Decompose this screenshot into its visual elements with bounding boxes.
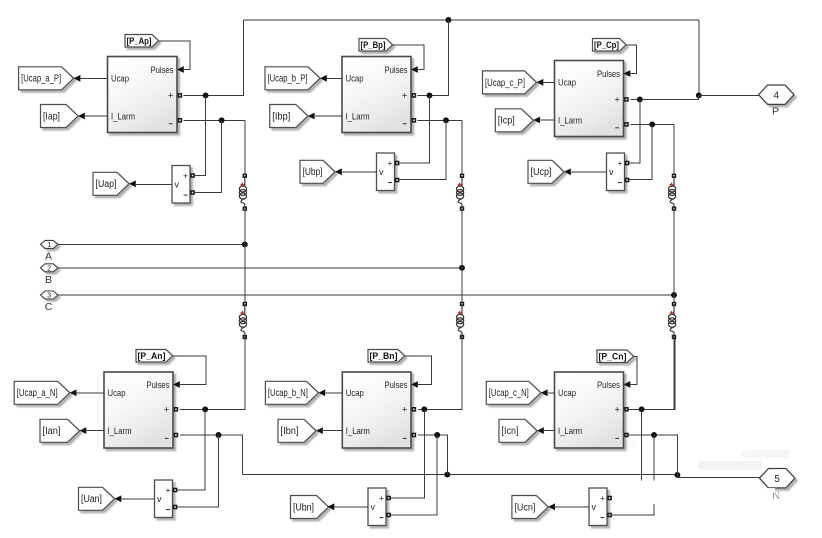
wire V_an out to [Uan] xyxy=(115,495,155,502)
inductor L_Cp xyxy=(669,174,677,211)
svg-text:Ucap: Ucap xyxy=(108,388,126,399)
svg-text:+: + xyxy=(402,405,408,416)
svg-text:2: 2 xyxy=(47,265,51,272)
wire + branch down to Vap xyxy=(195,95,205,175)
junction - branch to Vap xyxy=(219,117,225,123)
svg-text:A: A xyxy=(45,250,52,262)
junction on N rail (phase C drop) xyxy=(674,472,680,478)
wire V_cp out to [Ucp] xyxy=(564,168,607,175)
wire - branch down to Vcp xyxy=(630,124,653,179)
svg-text:[P_Bn]: [P_Bn] xyxy=(370,351,398,362)
junction - branch to Van xyxy=(216,432,222,438)
subsystem U_Bp xyxy=(342,57,418,133)
svg-text:P: P xyxy=(772,106,779,118)
svg-text:[Ibp]: [Ibp] xyxy=(272,111,290,122)
subsystem U_An xyxy=(104,372,180,448)
svg-text:+: + xyxy=(166,485,171,495)
wire N rail jog to port 5 xyxy=(677,475,759,478)
svg-text:v: v xyxy=(175,180,180,190)
svg-text:[Ucap_a_P]: [Ucap_a_P] xyxy=(21,74,61,85)
subsystem U_Bn xyxy=(342,372,418,448)
from tag [P_Ap] xyxy=(125,35,159,48)
svg-text:1: 1 xyxy=(47,242,51,249)
svg-text:[Ian]: [Ian] xyxy=(43,426,61,437)
svg-text:[Ubp]: [Ubp] xyxy=(303,167,323,178)
port 5 (N) xyxy=(760,469,795,502)
goto tag [Uan] xyxy=(79,487,115,510)
wire - output to arm chain xyxy=(630,123,674,125)
svg-text:[Ucp]: [Ucp] xyxy=(531,167,552,178)
port 2 (phase B) xyxy=(41,264,58,286)
svg-text:+: + xyxy=(183,171,188,181)
wire Ucap out to [Ucap_a_N] xyxy=(70,389,104,396)
wire - branch down to Vcn (faded) xyxy=(612,435,654,515)
svg-text:v: v xyxy=(371,502,376,512)
goto tag [Ucap_a_N] xyxy=(14,381,69,404)
wire phase B rail xyxy=(58,267,462,269)
voltmeter V_an xyxy=(155,480,178,518)
voltmeter V_cn xyxy=(589,488,612,526)
junction phase B rail / arm chain xyxy=(459,265,465,271)
inductor L_Bp xyxy=(457,174,465,211)
port 1 (phase A) xyxy=(41,240,58,262)
svg-text:[P_Ap]: [P_Ap] xyxy=(127,36,152,47)
svg-text:[Ucap_c_P]: [Ucap_c_P] xyxy=(485,78,525,89)
svg-text:[P_Cn]: [P_Cn] xyxy=(599,351,627,362)
svg-text:I_Larm: I_Larm xyxy=(346,426,370,437)
svg-text:+: + xyxy=(379,493,384,503)
wire to port 4 xyxy=(699,94,759,96)
goto tag [Ibp] xyxy=(270,105,308,128)
wire V_cn out to [Ucn] xyxy=(548,503,589,510)
wire [P_An] to Pulses xyxy=(173,356,207,385)
wire V_bp out to [Ubp] xyxy=(335,168,377,175)
svg-text:[Uap]: [Uap] xyxy=(96,179,117,190)
wire [P_Bp] to Pulses xyxy=(393,45,425,70)
subsystem U_Cp xyxy=(555,61,631,137)
wire Ucap out to [Ucap_b_N] xyxy=(318,389,342,396)
svg-text:B: B xyxy=(45,274,52,286)
wire + branch down to Van xyxy=(178,409,206,490)
svg-text:v: v xyxy=(609,167,614,177)
inductor L_An xyxy=(239,302,247,339)
wire + branch down to Vcp xyxy=(630,99,640,163)
wire phase C riser to P rail xyxy=(698,20,700,95)
svg-text:v: v xyxy=(379,167,384,177)
svg-text:+: + xyxy=(164,405,170,416)
svg-text:+: + xyxy=(614,405,620,416)
wire phase C rail xyxy=(58,294,674,296)
goto tag [Ibn] xyxy=(278,419,316,442)
svg-text:[Ucap_b_P]: [Ucap_b_P] xyxy=(268,74,308,85)
wire + output to port 4 jog xyxy=(630,95,698,99)
junction + branch to Vcn xyxy=(639,406,645,412)
svg-text:I_Larm: I_Larm xyxy=(558,426,582,437)
wire - branch down to Vap xyxy=(195,120,221,192)
svg-text:v: v xyxy=(592,502,597,512)
svg-text:[P_Bp]: [P_Bp] xyxy=(361,40,386,51)
wire V_ap out to [Uap] xyxy=(129,180,172,187)
wire I_Larm out to [Iap] xyxy=(78,113,108,120)
wire - output to N drop xyxy=(180,435,243,475)
junction + branch to Vap xyxy=(203,92,209,98)
wire [P_Cn] to Pulses xyxy=(631,356,637,384)
junction + branch to Vbp xyxy=(427,92,433,98)
wire arm chain phase A (upper) xyxy=(244,120,246,304)
voltmeter V_ap xyxy=(172,166,195,204)
wire I_Larm out to [Icn] xyxy=(537,427,555,434)
goto tag [Ubn] xyxy=(291,496,329,519)
junction on P rail (phase B riser) xyxy=(445,17,451,23)
goto tag [Ucn] xyxy=(512,496,548,519)
wire + output to arm chain xyxy=(626,336,675,409)
svg-text:[Icn]: [Icn] xyxy=(502,426,519,437)
svg-text:Pulses: Pulses xyxy=(597,69,620,80)
svg-text:+: + xyxy=(168,91,174,102)
goto tag [Ucp] xyxy=(528,160,564,183)
wire - branch down to Vbp xyxy=(400,120,446,179)
inductor L_Cn xyxy=(669,302,677,339)
goto tag [Iap] xyxy=(41,105,79,128)
svg-text:5: 5 xyxy=(774,474,780,485)
svg-text:[P_Cp]: [P_Cp] xyxy=(594,40,619,51)
junction + branch to Vbn xyxy=(421,406,427,412)
wire I_Larm out to [Icp] xyxy=(533,117,554,124)
svg-text:Pulses: Pulses xyxy=(597,380,620,391)
svg-text:I_Larm: I_Larm xyxy=(108,426,132,437)
svg-text:[Ucap_b_N]: [Ucap_b_N] xyxy=(268,388,308,399)
wire arm chain phase B (lower) xyxy=(461,337,463,409)
wire + branch down to Vcn (faded) xyxy=(641,409,643,480)
goto tag [Uap] xyxy=(93,172,129,195)
voltmeter V_cp xyxy=(607,153,630,191)
wire I_Larm out to [Ibp] xyxy=(308,113,342,120)
from tag [P_An] xyxy=(136,350,173,363)
goto tag [Ucap_c_P] xyxy=(483,71,537,94)
svg-text:Pulses: Pulses xyxy=(385,65,408,76)
inductor L_Bn xyxy=(457,302,465,339)
goto tag [Ucap_b_P] xyxy=(265,67,320,90)
wire Ucap out to [Ucap_c_P] xyxy=(537,79,555,86)
svg-text:Pulses: Pulses xyxy=(151,65,174,76)
from tag [P_Cp] xyxy=(593,39,627,52)
from tag [P_Bp] xyxy=(359,39,393,52)
svg-text:Pulses: Pulses xyxy=(385,380,408,391)
wire [P_Bn] to Pulses xyxy=(405,356,432,385)
junction phase A rail / arm chain xyxy=(242,241,248,247)
junction + branch to Vcp xyxy=(637,96,643,102)
voltmeter V_bp xyxy=(377,153,400,191)
goto tag [Ucap_b_N] xyxy=(265,381,318,404)
wire - output to arm chain xyxy=(183,119,245,121)
svg-text:3: 3 xyxy=(47,293,51,300)
junction on N rail (phase B drop) xyxy=(444,472,450,478)
wire + output to P riser xyxy=(183,20,243,95)
svg-text:+: + xyxy=(388,158,393,168)
wire arm chain phase C (upper) xyxy=(673,124,675,304)
svg-text:+: + xyxy=(618,158,623,168)
goto tag [Ubp] xyxy=(300,160,335,183)
wire Ucap out to [Ucap_b_P] xyxy=(320,75,342,82)
svg-text:+: + xyxy=(402,91,408,102)
svg-text:[Icp]: [Icp] xyxy=(498,116,515,127)
wire - output to N drop xyxy=(418,435,447,475)
junction phase C rail / arm chain xyxy=(671,292,677,298)
subsystem U_Ap xyxy=(108,57,184,133)
wire + branch down to Vbn xyxy=(390,409,424,498)
svg-text:I_Larm: I_Larm xyxy=(111,111,135,122)
wire Ucap out to [Ucap_c_N] xyxy=(541,389,555,396)
wire + output to arm chain xyxy=(418,335,462,410)
wire + branch down to Vbp xyxy=(400,95,430,163)
from tag [P_Cn] xyxy=(597,350,634,363)
wire I_Larm out to [Ibn] xyxy=(316,427,342,434)
goto tag [Icn] xyxy=(499,419,537,442)
wire phase A rail xyxy=(58,243,245,245)
wire V_bn out to [Ubn] xyxy=(328,503,369,510)
svg-text:[Ubn]: [Ubn] xyxy=(293,502,314,513)
goto tag [Ucap_a_P] xyxy=(19,67,74,90)
svg-text:[P_An]: [P_An] xyxy=(138,351,166,362)
wire Ucap out to [Ucap_a_P] xyxy=(74,75,108,82)
svg-text:4: 4 xyxy=(774,90,780,101)
svg-text:[Ucn]: [Ucn] xyxy=(514,502,535,513)
goto tag [Icp] xyxy=(495,109,533,132)
goto tag [Ian] xyxy=(40,419,80,442)
svg-text:[Iap]: [Iap] xyxy=(43,111,60,122)
wire + output to P riser xyxy=(418,20,449,95)
svg-text:Ucap: Ucap xyxy=(558,78,576,89)
wire arm chain phase B (upper) xyxy=(461,120,463,304)
junction + branch to Van xyxy=(202,406,208,412)
svg-text:[Ibn]: [Ibn] xyxy=(281,426,299,437)
svg-text:+: + xyxy=(600,493,605,503)
wire - branch down to Vbn xyxy=(390,435,437,515)
svg-text:+: + xyxy=(614,95,620,106)
wire I_Larm out to [Ian] xyxy=(80,427,105,434)
svg-text:[Ucap_a_N]: [Ucap_a_N] xyxy=(17,388,58,399)
svg-text:[Uan]: [Uan] xyxy=(81,494,102,505)
goto tag [Ucap_c_N] xyxy=(486,381,541,404)
faint artifact patches xyxy=(585,441,790,470)
wire [P_Cp] to Pulses xyxy=(626,45,637,74)
port 3 (phase C) xyxy=(41,291,58,313)
voltmeter V_bn xyxy=(368,488,391,526)
inductor L_Ap xyxy=(239,174,247,211)
port 4 (P) xyxy=(759,85,794,118)
wire [P_Ap] to Pulses xyxy=(159,41,191,70)
from tag [P_Bn] xyxy=(368,350,405,363)
wire arm chain phase C (lower) xyxy=(673,337,675,409)
wire - output to arm chain xyxy=(418,119,462,121)
svg-text:Ucap: Ucap xyxy=(346,388,364,399)
svg-text:v: v xyxy=(157,494,162,504)
wire - branch down to Van xyxy=(178,435,219,507)
svg-text:I_Larm: I_Larm xyxy=(558,115,582,126)
wire arm chain phase A (lower) xyxy=(244,337,246,409)
svg-text:Ucap: Ucap xyxy=(111,74,129,85)
wire - output to N drop xyxy=(626,435,677,475)
junction - branch to Vbp xyxy=(443,117,449,123)
svg-text:Ucap: Ucap xyxy=(346,74,364,85)
svg-text:I_Larm: I_Larm xyxy=(346,111,370,122)
wire P bus rail (top) xyxy=(244,19,699,21)
junction - branch to Vcp xyxy=(649,121,655,127)
junction P rail / port 4 feed xyxy=(696,92,702,98)
subsystem U_Cn xyxy=(555,372,631,448)
svg-text:Ucap: Ucap xyxy=(558,388,576,399)
wire + output to arm chain xyxy=(180,336,245,410)
svg-text:[Ucap_c_N]: [Ucap_c_N] xyxy=(489,388,529,399)
junction - branch to Vbn xyxy=(434,432,440,438)
svg-text:Pulses: Pulses xyxy=(147,380,170,391)
junction - branch to Vcn xyxy=(651,432,657,438)
svg-text:C: C xyxy=(45,301,53,313)
wire N bus rail (bottom) xyxy=(242,474,677,476)
